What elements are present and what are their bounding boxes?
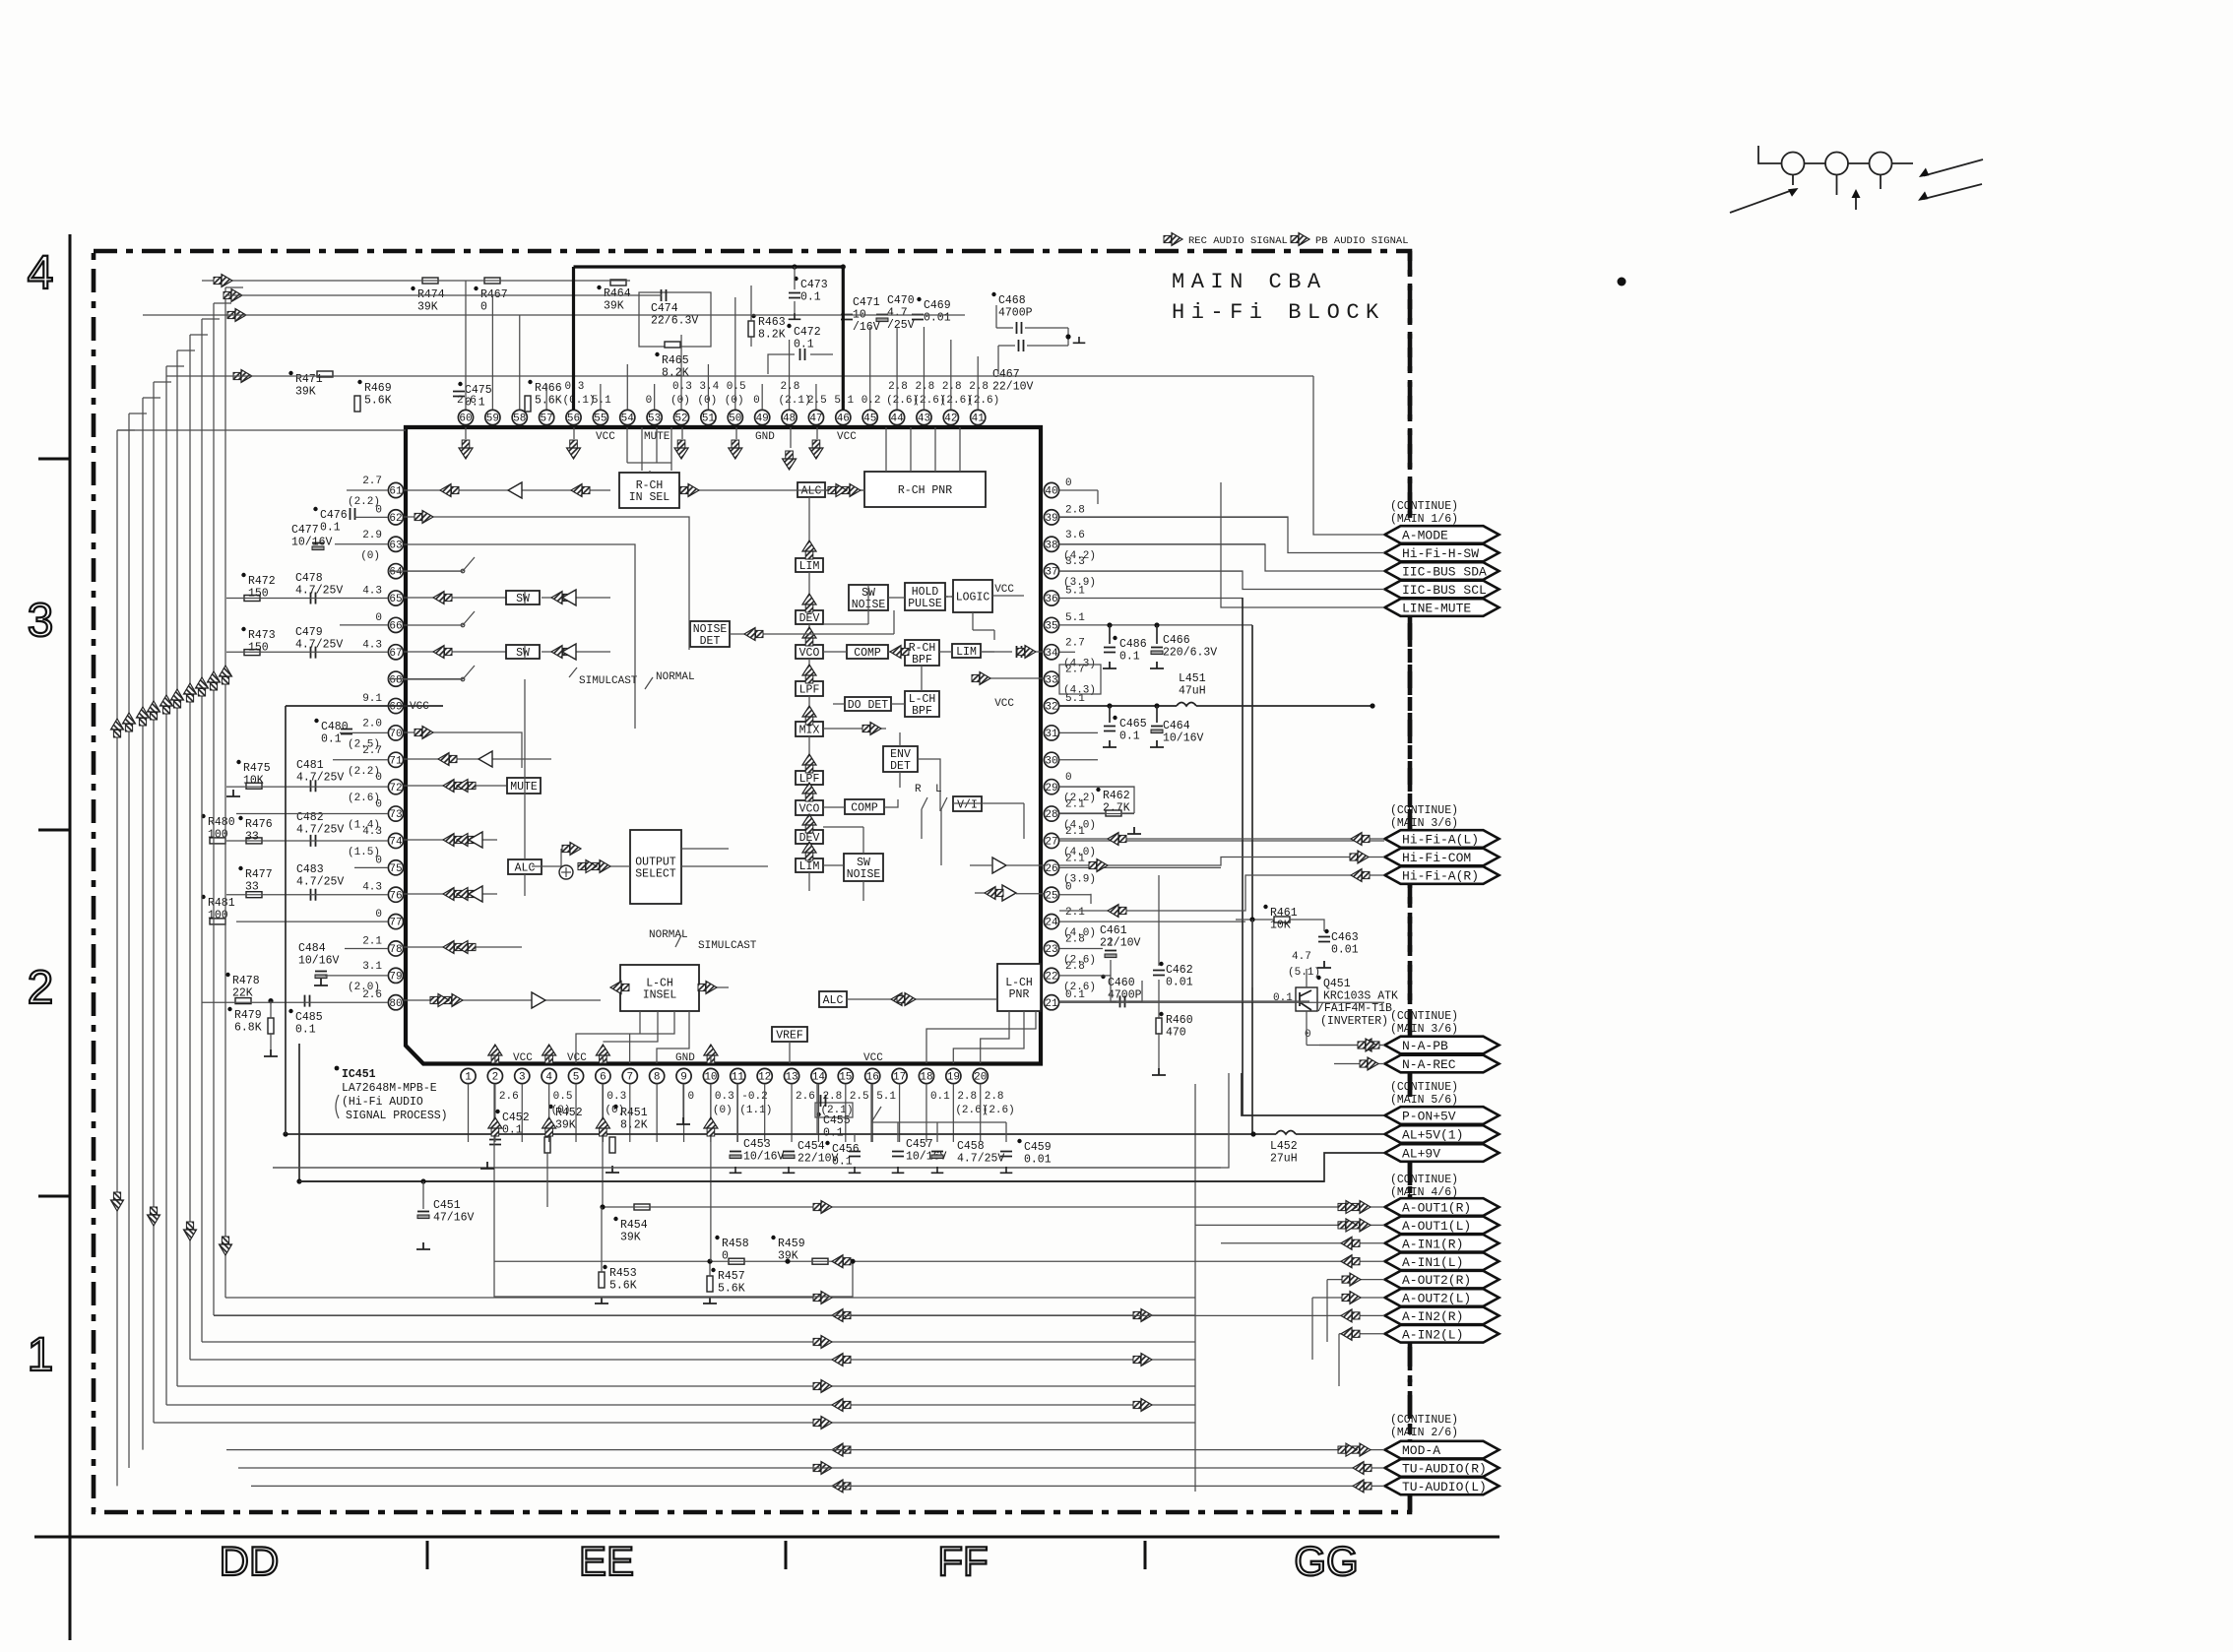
- wire pin11 col: [736, 1084, 738, 1142]
- svg-text:24: 24: [1045, 918, 1058, 929]
- block SW NOISE (L): [844, 854, 883, 881]
- svg-text:8.2K: 8.2K: [620, 1119, 648, 1132]
- svg-text:62: 62: [389, 513, 402, 525]
- svg-text:0.1: 0.1: [320, 522, 341, 535]
- wire C462/R460 column: [1158, 875, 1160, 1068]
- svg-text:2.1: 2.1: [1065, 853, 1085, 864]
- resistor R452: [544, 1137, 550, 1153]
- resistor R453: [599, 1272, 605, 1288]
- wire TU-AUDIO(R) row: [238, 1467, 1384, 1469]
- wire C457 rail: [871, 1122, 1006, 1142]
- svg-text:L451: L451: [1179, 672, 1206, 685]
- bus y1186: [273, 1167, 1221, 1169]
- bottom axis line: [34, 1537, 1499, 1569]
- svg-text:39K: 39K: [417, 301, 438, 314]
- wire pin72 mute: [404, 785, 506, 787]
- block LOGIC: [953, 580, 992, 612]
- pin 49: [755, 410, 770, 424]
- svg-text:4.7/25V: 4.7/25V: [295, 585, 343, 598]
- svg-text:GG: GG: [1294, 1538, 1358, 1584]
- svg-text:10/16V: 10/16V: [291, 537, 333, 549]
- svg-text:5.1: 5.1: [592, 395, 611, 407]
- capacitor C451: [417, 1211, 429, 1213]
- wire R-CH PNR top feeds: [886, 427, 960, 472]
- svg-text:VREF: VREF: [776, 1029, 803, 1042]
- svg-text:0: 0: [480, 301, 487, 314]
- pin 34: [1044, 645, 1058, 660]
- svg-text:2.8: 2.8: [942, 381, 962, 393]
- wire R453 hang: [601, 1207, 603, 1272]
- svg-text:GND: GND: [675, 1052, 695, 1064]
- svg-text:10/16V: 10/16V: [298, 955, 340, 968]
- svg-text:48: 48: [783, 413, 796, 425]
- wire pin38 to IIC-BUS SDA: [1059, 544, 1384, 571]
- svg-text:P-ON+5V: P-ON+5V: [1402, 1110, 1456, 1124]
- capacitor C457: [892, 1152, 904, 1157]
- svg-text:TU-AUDIO(R): TU-AUDIO(R): [1402, 1462, 1487, 1477]
- svg-text:3.3: 3.3: [1065, 556, 1085, 568]
- svg-text:LPF: LPF: [799, 683, 820, 696]
- wire pin24 to Hi-Fi-A(R): [1059, 875, 1384, 911]
- wire comp-bpf links R: [823, 651, 1044, 653]
- svg-text:8: 8: [654, 1072, 661, 1084]
- svg-text:42: 42: [944, 413, 957, 425]
- svg-text:51: 51: [702, 413, 716, 425]
- wire P-ON+5V feed: [1242, 1073, 1384, 1115]
- pin 29: [1044, 780, 1058, 794]
- svg-text:2.6: 2.6: [499, 1091, 519, 1103]
- gnd row under caps: [730, 1167, 742, 1173]
- svg-text:C473: C473: [800, 279, 828, 291]
- svg-text:R453: R453: [609, 1267, 637, 1280]
- svg-text:C466: C466: [1163, 634, 1190, 647]
- capacitor C460: [1120, 995, 1125, 1007]
- resistor R479: [268, 1018, 274, 1034]
- svg-text:2.1: 2.1: [1065, 799, 1085, 811]
- connector A-IN2(R): [1385, 1307, 1499, 1325]
- wire top pin stubs: [466, 281, 978, 410]
- right pin voltage labels: [1063, 477, 1096, 1001]
- svg-text:2.8: 2.8: [888, 381, 908, 393]
- svg-text:28: 28: [1045, 809, 1057, 821]
- resistor R471: [317, 371, 333, 377]
- svg-text:0: 0: [688, 1091, 695, 1103]
- svg-text:(Hi-Fi AUDIO: (Hi-Fi AUDIO: [342, 1096, 423, 1109]
- pin 74: [388, 833, 403, 848]
- svg-text:59: 59: [486, 413, 499, 425]
- block SW NOISE (R): [849, 585, 888, 610]
- pin 45: [862, 410, 877, 424]
- pin 59: [485, 410, 500, 424]
- svg-text:C480: C480: [321, 721, 349, 733]
- svg-text:R469: R469: [364, 382, 392, 395]
- svg-text:BPF: BPF: [912, 705, 932, 718]
- svg-text:IIC-BUS SCL: IIC-BUS SCL: [1402, 583, 1487, 598]
- svg-text:R463: R463: [758, 316, 786, 329]
- pin 50: [728, 410, 742, 424]
- pin 75: [388, 860, 403, 875]
- svg-text:2.8: 2.8: [1065, 504, 1085, 516]
- legend PB AUDIO SIGNAL: [1291, 233, 1309, 246]
- capacitor C459: [1000, 1152, 1012, 1157]
- svg-text:20: 20: [974, 1072, 987, 1084]
- svg-text:76: 76: [389, 890, 402, 902]
- connector A-OUT1(R): [1385, 1198, 1499, 1216]
- wire R461 node: [1236, 920, 1324, 931]
- svg-text:39: 39: [1045, 513, 1057, 525]
- wire pin27 to Hi-Fi-A(L): [1059, 838, 1384, 840]
- wire pin71 buffer: [404, 758, 551, 760]
- svg-text:(0): (0): [697, 395, 717, 407]
- capacitor C472: [800, 349, 805, 360]
- svg-text:55: 55: [594, 413, 606, 425]
- svg-text:0.1: 0.1: [321, 733, 342, 746]
- svg-text:56: 56: [567, 413, 580, 425]
- svg-text:(5.1): (5.1): [1288, 967, 1320, 979]
- svg-text:5.1: 5.1: [1065, 586, 1085, 598]
- pin40 stub: [1097, 490, 1099, 504]
- resistor R469: [354, 396, 360, 412]
- svg-text:3: 3: [28, 595, 54, 647]
- pin 80: [388, 995, 403, 1010]
- svg-text:MIX: MIX: [799, 724, 820, 736]
- svg-text:50: 50: [729, 413, 741, 425]
- svg-text:AL+9V: AL+9V: [1402, 1147, 1440, 1162]
- svg-text:34: 34: [1045, 648, 1058, 660]
- svg-text:46: 46: [837, 413, 850, 425]
- svg-text:39K: 39K: [555, 1119, 576, 1132]
- left ruler line: [69, 234, 72, 1640]
- svg-text:C465: C465: [1119, 718, 1147, 731]
- capacitor C477: [312, 542, 324, 544]
- wire top h3 arrow: [227, 309, 246, 322]
- wire top h2: [225, 294, 662, 296]
- svg-text:5.1: 5.1: [876, 1091, 896, 1103]
- resistor R478: [235, 998, 251, 1004]
- wire top h4 arrow: [233, 370, 252, 383]
- wire top h1: [202, 280, 630, 282]
- top pin voltage labels: [457, 381, 999, 407]
- svg-text:(MAIN 5/6): (MAIN 5/6): [1390, 1094, 1458, 1107]
- svg-text:KRC103S ATK: KRC103S ATK: [1323, 990, 1398, 1003]
- svg-text:16: 16: [866, 1072, 879, 1084]
- capacitor C454: [783, 1151, 795, 1153]
- svg-text:LIM: LIM: [956, 646, 977, 659]
- block LIM (R): [796, 558, 823, 572]
- svg-text:60: 60: [459, 413, 472, 425]
- svg-text:4.3: 4.3: [362, 586, 382, 598]
- svg-text:2.9: 2.9: [362, 530, 382, 541]
- svg-text:21: 21: [1045, 998, 1058, 1010]
- svg-text:13: 13: [785, 1072, 797, 1084]
- svg-text:R478: R478: [232, 975, 260, 987]
- svg-text:R452: R452: [555, 1107, 583, 1119]
- svg-text:26: 26: [1045, 863, 1057, 875]
- svg-text:9: 9: [680, 1072, 687, 1084]
- svg-text:68: 68: [389, 674, 402, 686]
- svg-text:2: 2: [28, 962, 54, 1014]
- svg-text:(CONTINUE): (CONTINUE): [1390, 1414, 1458, 1427]
- pin 70: [388, 726, 403, 740]
- svg-text:64: 64: [389, 567, 403, 579]
- svg-text:77: 77: [389, 918, 402, 929]
- svg-text:2.8: 2.8: [969, 381, 989, 393]
- resistor R458: [729, 1258, 744, 1264]
- wire pin35 rail to caps: [1251, 625, 1253, 1134]
- pin 35: [1044, 617, 1058, 632]
- resistor R451: [609, 1137, 615, 1153]
- block VREF: [772, 1027, 807, 1042]
- block R-CH BPF: [905, 640, 939, 666]
- block VCO (L): [796, 800, 823, 815]
- svg-text:LINE-MUTE: LINE-MUTE: [1402, 602, 1471, 616]
- svg-text:2.8: 2.8: [1065, 961, 1085, 973]
- svg-text:2.1: 2.1: [1065, 907, 1085, 919]
- pin 66: [388, 617, 403, 632]
- IC U451 body (LA72648M) outline: [406, 427, 1041, 1064]
- svg-text:12: 12: [758, 1072, 771, 1084]
- inductor L452: [1276, 1131, 1296, 1135]
- svg-text:57: 57: [541, 413, 553, 425]
- svg-text:R475: R475: [243, 762, 271, 775]
- svg-text:(MAIN 1/6): (MAIN 1/6): [1390, 513, 1458, 526]
- svg-text:39K: 39K: [620, 1232, 641, 1244]
- svg-text:0.5: 0.5: [553, 1091, 573, 1103]
- svg-text:0.1: 0.1: [1065, 989, 1085, 1001]
- pin 67: [388, 645, 403, 660]
- svg-text:0.1: 0.1: [832, 1156, 853, 1169]
- svg-text:LA72648M-MPB-E: LA72648M-MPB-E: [342, 1082, 437, 1095]
- wire L-CH PNR outs: [926, 1011, 1036, 1063]
- svg-text:C461: C461: [1100, 924, 1127, 937]
- svg-text:PULSE: PULSE: [908, 598, 942, 610]
- svg-text:DEV: DEV: [799, 612, 820, 625]
- svg-text:32: 32: [1045, 702, 1057, 714]
- wire pin74 line: [404, 839, 497, 841]
- block DO DET: [845, 697, 891, 711]
- svg-text:8.2K: 8.2K: [758, 329, 786, 342]
- svg-text:MUTE: MUTE: [510, 781, 538, 794]
- svg-text:NOISE: NOISE: [847, 868, 881, 881]
- svg-text:DET: DET: [700, 635, 721, 648]
- resistor R459: [812, 1258, 828, 1264]
- wire top h3: [143, 314, 965, 316]
- svg-text:74: 74: [389, 837, 403, 849]
- svg-text:C472: C472: [794, 326, 821, 339]
- wire sw-noise links: [823, 585, 868, 624]
- svg-text:R462: R462: [1103, 790, 1130, 802]
- capacitor C468: [991, 292, 995, 296]
- wire bus 1186: [273, 1073, 1229, 1168]
- svg-text:NOISE: NOISE: [693, 623, 728, 636]
- wire pin69 vcc rail: [286, 706, 443, 1134]
- svg-text:NORMAL: NORMAL: [656, 671, 695, 683]
- svg-text:A-OUT1(R): A-OUT1(R): [1402, 1201, 1471, 1216]
- svg-text:0: 0: [1305, 1029, 1311, 1041]
- svg-text:C456: C456: [832, 1143, 860, 1156]
- resistor R466: [525, 396, 531, 412]
- svg-text:4700P: 4700P: [998, 307, 1033, 320]
- wire MOD-A row: [226, 1449, 1384, 1451]
- svg-text:33: 33: [245, 881, 259, 894]
- resistor R477: [246, 892, 262, 898]
- svg-text:V/I: V/I: [957, 798, 978, 811]
- wire ALC to L-CH PNR: [847, 998, 997, 1000]
- wire pin65 SW/ALC: [404, 597, 610, 599]
- wire pin37 to IIC-BUS SCL: [1059, 571, 1384, 590]
- svg-text:25: 25: [1045, 890, 1057, 902]
- svg-text:44: 44: [890, 413, 904, 425]
- svg-text:0: 0: [375, 504, 382, 516]
- capacitor C458: [931, 1151, 943, 1153]
- svg-text:40: 40: [1045, 486, 1057, 498]
- svg-text:SW: SW: [857, 857, 870, 869]
- svg-text:(MAIN 4/6): (MAIN 4/6): [1390, 1186, 1458, 1199]
- svg-text:4.7: 4.7: [887, 307, 908, 320]
- svg-text:R458: R458: [722, 1238, 749, 1250]
- svg-text:2.8: 2.8: [985, 1091, 1004, 1103]
- svg-text:Q451: Q451: [1323, 978, 1351, 990]
- capacitor C467: [1019, 340, 1024, 351]
- svg-text:41: 41: [972, 413, 986, 425]
- pin 79: [388, 968, 403, 983]
- ruler tick 4/3: [38, 458, 70, 461]
- capacitor C486: [1104, 648, 1116, 653]
- svg-text:(CONTINUE): (CONTINUE): [1390, 1174, 1458, 1186]
- svg-text:0.1: 0.1: [465, 397, 485, 410]
- svg-text:11: 11: [732, 1072, 745, 1084]
- connector A-OUT2(R): [1385, 1271, 1499, 1289]
- svg-text:2.5: 2.5: [850, 1091, 869, 1103]
- svg-text:R459: R459: [778, 1238, 805, 1250]
- wire pin23/22 C461/C460: [1111, 937, 1142, 1001]
- svg-text:AL+5V(1): AL+5V(1): [1402, 1128, 1463, 1143]
- power marks below bottom pins: [488, 1117, 502, 1136]
- svg-text:(MAIN 3/6): (MAIN 3/6): [1390, 1023, 1458, 1036]
- svg-text:29: 29: [1045, 783, 1057, 794]
- svg-text:R-CH PNR: R-CH PNR: [898, 484, 952, 497]
- wire pin70 feed: [404, 732, 522, 768]
- wire pin21 to N-A-REC: [1059, 1001, 1384, 1064]
- svg-text:R481: R481: [208, 897, 235, 910]
- svg-text:VCC: VCC: [994, 698, 1014, 710]
- svg-text:C486: C486: [1119, 638, 1147, 651]
- svg-text:0: 0: [375, 799, 382, 811]
- bottom bundle arrows: [813, 1292, 1152, 1493]
- svg-text:5.1: 5.1: [1065, 612, 1085, 624]
- block LIM (L): [796, 858, 823, 872]
- svg-text:C485: C485: [295, 1011, 323, 1024]
- block HOLD PULSE: [905, 583, 945, 610]
- power marks above bottom pins: [488, 1045, 502, 1063]
- pin 21: [1044, 995, 1058, 1010]
- svg-text:10K: 10K: [1270, 920, 1291, 932]
- svg-text:(CONTINUE): (CONTINUE): [1390, 1010, 1458, 1023]
- svg-text:N-A-REC: N-A-REC: [1402, 1057, 1456, 1072]
- wire logic links: [973, 612, 994, 640]
- pin 41: [971, 410, 986, 424]
- wire vertical chain R: [808, 497, 810, 858]
- wire do det links: [833, 666, 922, 704]
- capacitor C452: [489, 1140, 501, 1145]
- svg-text:2.7: 2.7: [1065, 637, 1085, 649]
- svg-text:0: 0: [1065, 477, 1072, 489]
- svg-text:Hi-Fi-H-SW: Hi-Fi-H-SW: [1402, 546, 1479, 561]
- block L-CH BPF: [905, 691, 939, 717]
- capacitor C479: [311, 647, 316, 659]
- wire box loop bottom: [494, 1084, 853, 1297]
- bottom pin voltage labels: [499, 1091, 1015, 1116]
- svg-text:(CONTINUE): (CONTINUE): [1390, 1081, 1458, 1094]
- svg-text:4.3: 4.3: [362, 826, 382, 838]
- svg-text:0: 0: [646, 395, 653, 407]
- svg-text:220/6.3V: 220/6.3V: [1163, 647, 1217, 660]
- pin 24: [1044, 914, 1058, 928]
- connector AL+5V(1): [1385, 1125, 1499, 1143]
- svg-text:L-CH: L-CH: [1005, 977, 1033, 989]
- bus y1200 thick: [299, 1180, 1324, 1182]
- svg-text:5: 5: [573, 1072, 580, 1084]
- svg-text:C471: C471: [853, 296, 880, 309]
- pin 12: [757, 1068, 772, 1083]
- svg-text:A-OUT2(R): A-OUT2(R): [1402, 1273, 1471, 1288]
- pin 72: [388, 780, 403, 794]
- svg-text:NORMAL: NORMAL: [649, 929, 688, 941]
- wire pin39 to Hi-Fi-H-SW: [1059, 517, 1384, 553]
- svg-text:39K: 39K: [295, 386, 316, 399]
- wire pin67 SW/ALC: [404, 651, 610, 653]
- svg-text:R471: R471: [295, 373, 323, 386]
- svg-text:0.1: 0.1: [295, 1024, 316, 1037]
- svg-text:0.01: 0.01: [924, 312, 951, 325]
- svg-text:3.4: 3.4: [699, 381, 719, 393]
- svg-text:C452: C452: [502, 1112, 530, 1124]
- resistor R460: [1156, 1018, 1162, 1034]
- svg-text:-0.2: -0.2: [741, 1091, 767, 1103]
- svg-text:SIMULCAST: SIMULCAST: [698, 940, 757, 952]
- svg-text:C470: C470: [887, 294, 915, 307]
- svg-text:DD: DD: [220, 1538, 280, 1584]
- svg-text:VCC: VCC: [567, 1052, 587, 1064]
- svg-text:0: 0: [1065, 772, 1072, 784]
- svg-text:C451: C451: [433, 1199, 461, 1212]
- wire pin36 rail: [1242, 598, 1244, 1115]
- pin 16: [865, 1068, 880, 1083]
- svg-text:43: 43: [918, 413, 930, 425]
- svg-text:30: 30: [1045, 755, 1057, 767]
- pin 58: [512, 410, 527, 424]
- svg-text:70: 70: [389, 729, 402, 740]
- svg-text:23: 23: [1045, 944, 1057, 956]
- resistor R462: [1106, 810, 1121, 816]
- svg-text:9.1: 9.1: [362, 693, 382, 705]
- svg-text:C479: C479: [295, 626, 323, 639]
- connector A-IN1(R): [1385, 1235, 1499, 1252]
- svg-text:2.8: 2.8: [957, 1091, 977, 1103]
- pin 1: [461, 1068, 476, 1083]
- svg-text:79: 79: [389, 971, 402, 983]
- block ALC (65/67): [508, 859, 542, 874]
- svg-text:5.6K: 5.6K: [535, 395, 562, 408]
- capacitor C462: [1153, 971, 1165, 976]
- capacitor C478: [311, 593, 316, 604]
- pin 65: [388, 591, 403, 605]
- svg-text:ALC: ALC: [823, 994, 844, 1007]
- svg-text:N-A-PB: N-A-PB: [1402, 1039, 1448, 1053]
- connector A-OUT2(L): [1385, 1289, 1499, 1306]
- capacitor C474: [639, 292, 711, 347]
- resistor R480: [210, 838, 225, 844]
